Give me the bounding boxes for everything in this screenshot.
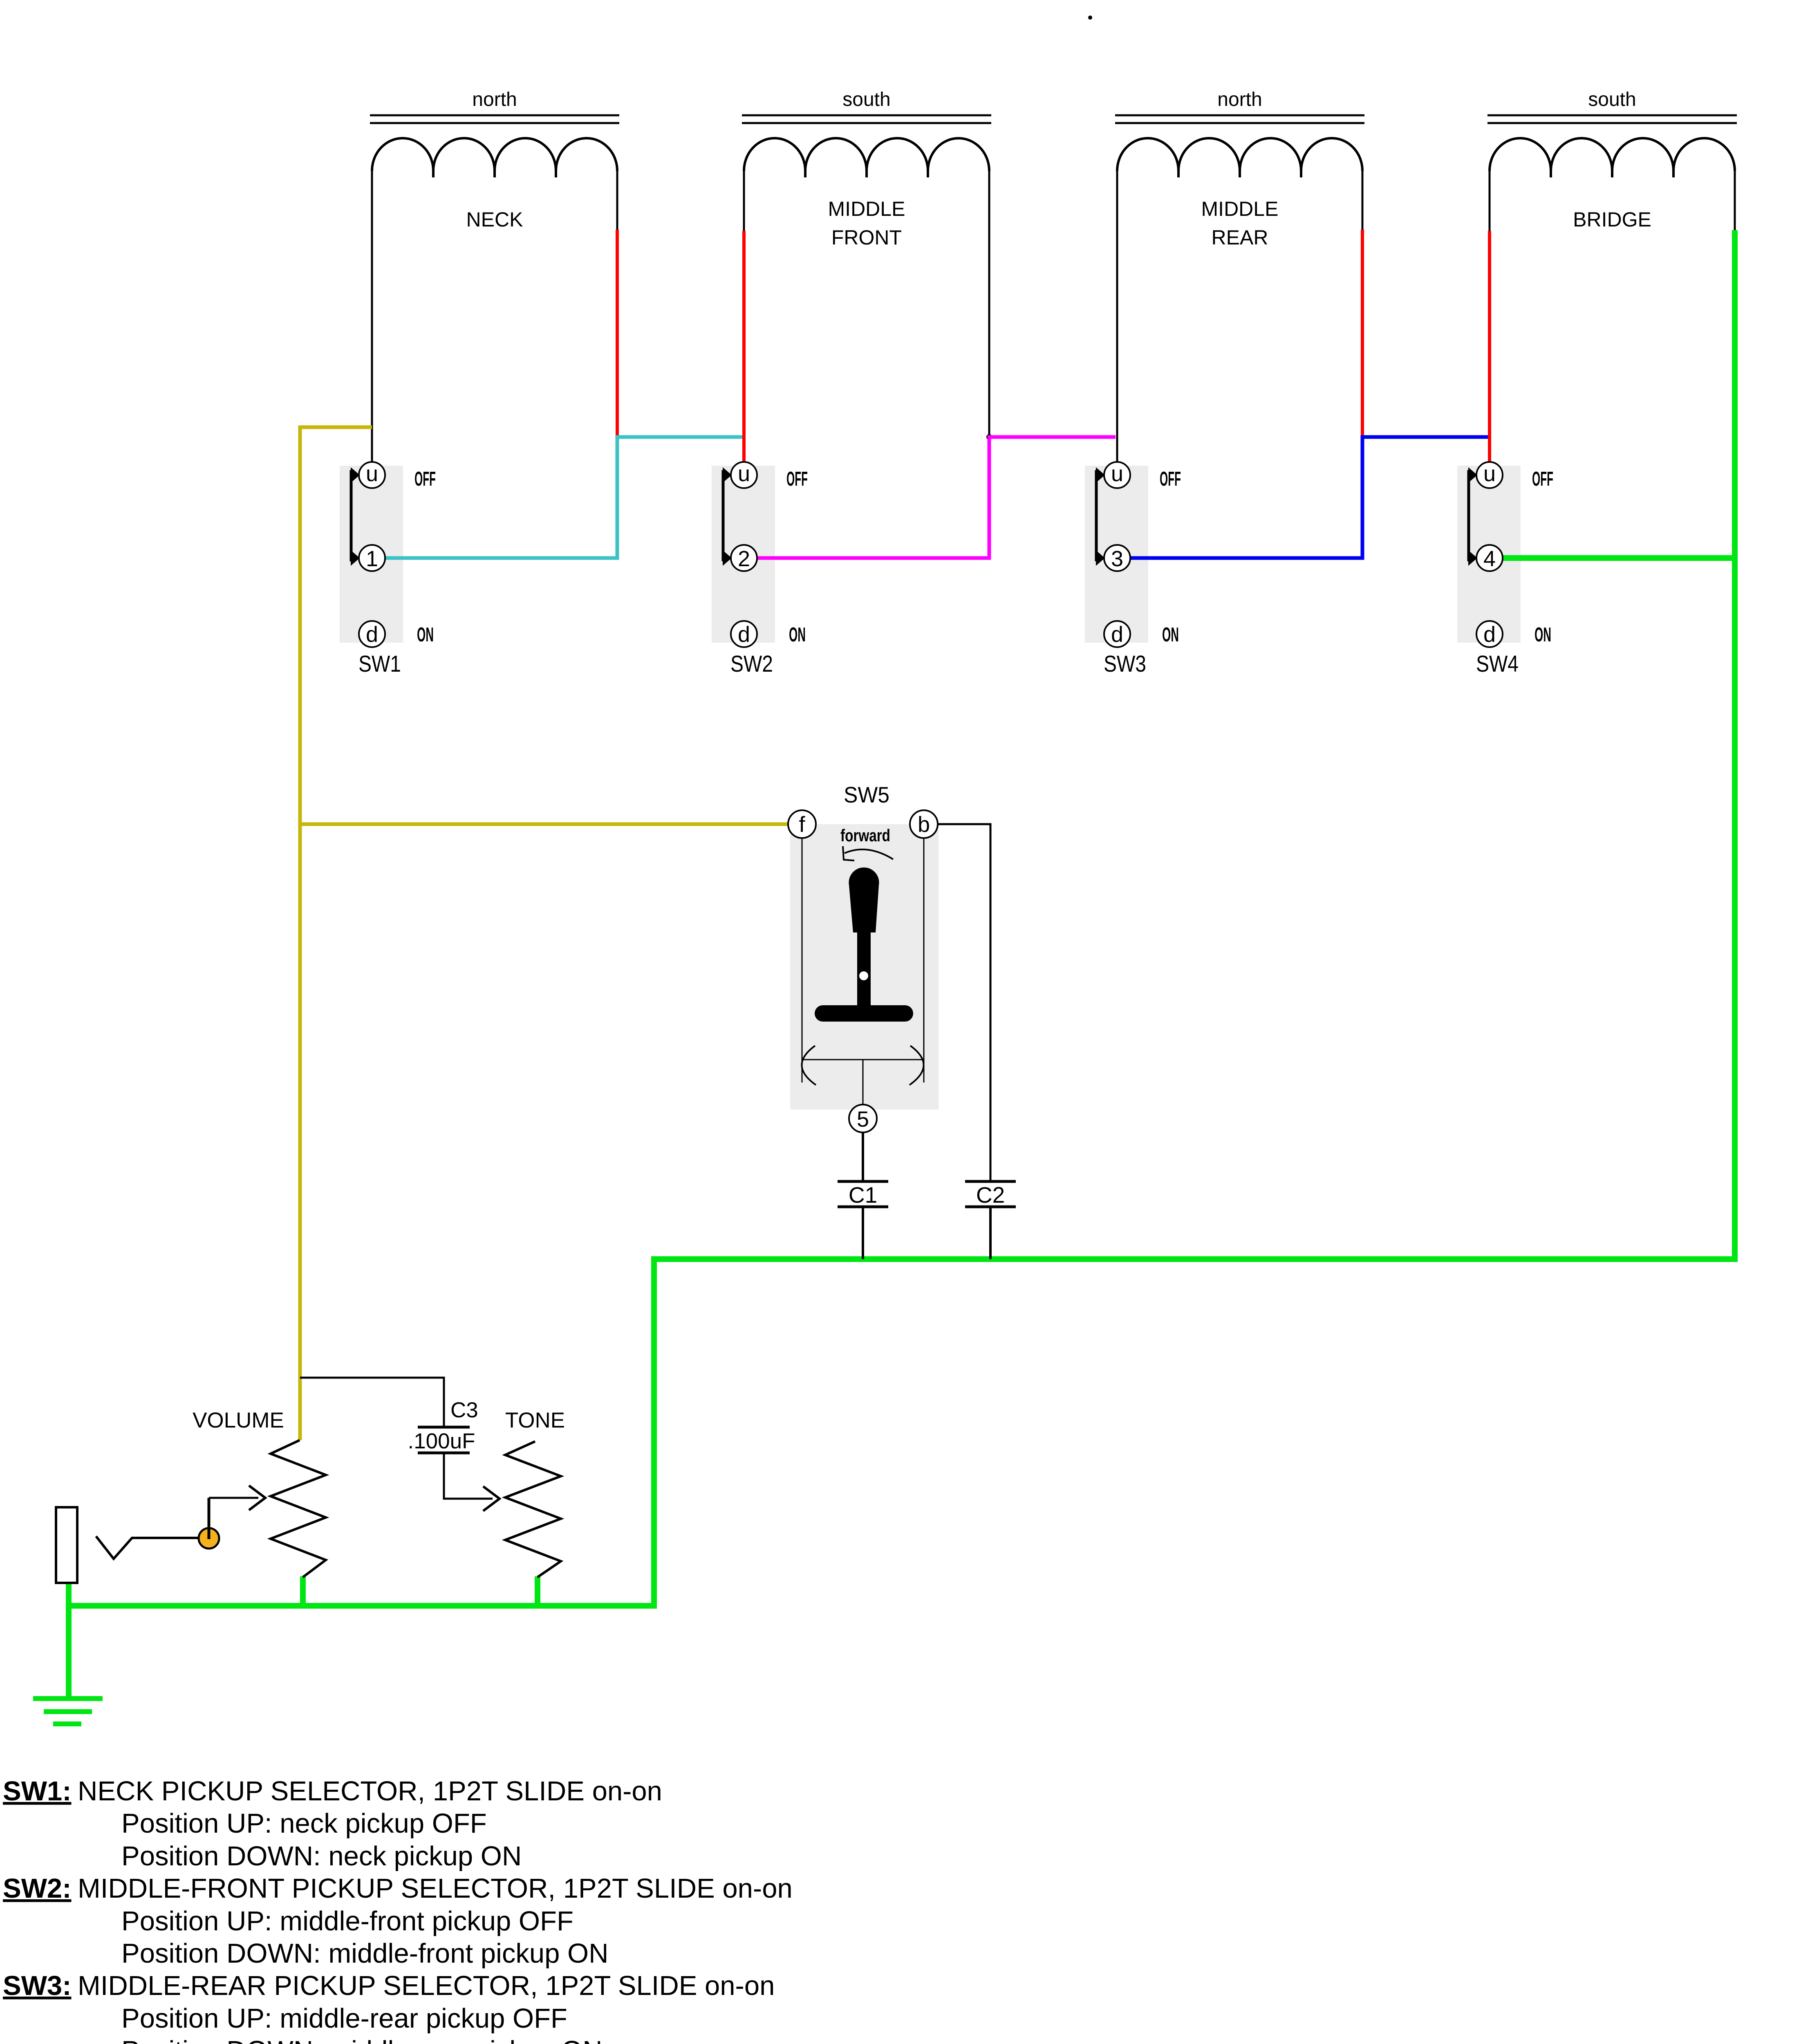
svg-text:.100uF: .100uF [408, 1429, 475, 1453]
svg-text:OFF: OFF [414, 468, 436, 490]
svg-text:u: u [366, 462, 378, 486]
svg-text:OFF: OFF [786, 468, 808, 490]
svg-text:MIDDLE: MIDDLE [1201, 197, 1279, 220]
svg-text:Position UP: neck pickup OFF: Position UP: neck pickup OFF [121, 1808, 487, 1839]
svg-text:MIDDLE: MIDDLE [828, 197, 905, 220]
svg-text:TONE: TONE [505, 1408, 565, 1432]
svg-text:SW1: SW1 [358, 651, 401, 677]
svg-text:Position UP: middle-front pick: Position UP: middle-front pickup OFF [121, 1906, 573, 1936]
svg-text:NECK: NECK [466, 208, 523, 231]
svg-text:SW4: SW4 [1476, 651, 1519, 677]
svg-text:ON: ON [417, 624, 434, 646]
svg-text:SW2:: SW2: [3, 1873, 72, 1904]
svg-text:south: south [1588, 89, 1636, 110]
svg-text:C2: C2 [976, 1182, 1005, 1208]
svg-text:4: 4 [1483, 547, 1496, 571]
svg-text:MIDDLE-REAR PICKUP SELECTOR, 1: MIDDLE-REAR PICKUP SELECTOR, 1P2T SLIDE … [78, 1970, 775, 2001]
svg-text:SW2: SW2 [730, 651, 773, 677]
svg-text:C3: C3 [450, 1398, 478, 1422]
svg-text:ON: ON [789, 624, 806, 646]
svg-text:SW5: SW5 [844, 782, 889, 807]
svg-text:u: u [1483, 462, 1496, 486]
svg-text:u: u [1111, 462, 1123, 486]
svg-text:5: 5 [857, 1107, 869, 1132]
svg-text:3: 3 [1111, 547, 1123, 571]
svg-text:ON: ON [1162, 624, 1179, 646]
svg-text:d: d [366, 622, 378, 647]
svg-text:SW3: SW3 [1104, 651, 1146, 677]
svg-text:VOLUME: VOLUME [193, 1408, 284, 1432]
svg-text:d: d [1483, 622, 1496, 647]
svg-text:SW3:: SW3: [3, 1970, 72, 2001]
svg-text:2: 2 [738, 547, 750, 571]
svg-text:REAR: REAR [1212, 226, 1268, 249]
svg-text:Position DOWN: middle-front pi: Position DOWN: middle-front pickup ON [121, 1938, 608, 1969]
svg-text:ON: ON [1535, 624, 1551, 646]
svg-text:b: b [918, 812, 930, 837]
svg-text:forward: forward [840, 826, 890, 845]
svg-text:d: d [738, 622, 750, 647]
svg-text:SW1:: SW1: [3, 1776, 72, 1806]
svg-text:north: north [472, 89, 517, 110]
svg-text:north: north [1217, 89, 1262, 110]
svg-text:MIDDLE-FRONT PICKUP SELECTOR,: MIDDLE-FRONT PICKUP SELECTOR, 1P2T SLIDE… [78, 1873, 793, 1904]
svg-text:C1: C1 [849, 1182, 877, 1208]
svg-text:OFF: OFF [1160, 468, 1181, 490]
svg-text:Position UP: middle-rear picku: Position UP: middle-rear pickup OFF [121, 2003, 567, 2034]
svg-text:u: u [738, 462, 750, 486]
svg-text:1: 1 [366, 547, 378, 571]
svg-text:NECK PICKUP SELECTOR, 1P2T SLI: NECK PICKUP SELECTOR, 1P2T SLIDE on-on [78, 1776, 662, 1806]
svg-text:FRONT: FRONT [831, 226, 902, 249]
svg-text:OFF: OFF [1532, 468, 1553, 490]
svg-text:f: f [799, 812, 805, 837]
svg-text:BRIDGE: BRIDGE [1573, 208, 1651, 231]
svg-text:south: south [842, 89, 890, 110]
svg-text:Position DOWN: neck pickup ON: Position DOWN: neck pickup ON [121, 1841, 522, 1871]
svg-text:Position DOWN: middle-rear pic: Position DOWN: middle-rear pickup ON [121, 2035, 603, 2044]
svg-text:d: d [1111, 622, 1123, 647]
